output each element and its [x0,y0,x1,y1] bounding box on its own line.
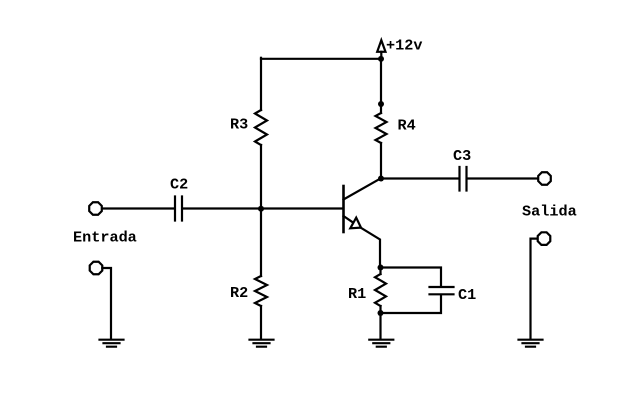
wire C3 to Salida terminal [468,177,538,179]
svg-text:+12v: +12v [386,37,422,55]
capacitor C2 [175,197,182,221]
node dot R4 top [378,101,384,107]
wire emitter node to R1 [379,268,381,275]
wire R1 bottom to ground [379,306,381,339]
svg-text:R4: R4 [398,117,416,135]
svg-text:Entrada: Entrada [73,229,137,247]
terminal Salida top [538,172,551,185]
wire collector to C3 [381,177,459,179]
node dot top rail [378,56,384,62]
svg-text:R3: R3 [230,116,248,134]
wire top rail [261,58,381,60]
transistor Q1 collector lead [344,179,381,200]
wire R4 to collector node [380,143,382,179]
power symbol +12v triangle [377,40,385,52]
ground under Salida [519,340,543,347]
wire salida ground drop [531,239,538,339]
resistor R2 [255,276,267,306]
transistor Q1 emitter lead [344,216,381,267]
svg-text:C2: C2 [170,176,188,194]
resistor R3 [255,110,267,145]
node dot R1 bottom [378,310,384,316]
wire emitter node to C1 top [381,268,441,287]
wire R4 branch [380,59,382,113]
transistor Q1 base bar [342,186,345,232]
svg-text:C1: C1 [458,286,476,304]
wire stem [380,52,382,59]
wire R3 to base junction to R2 [260,145,262,276]
node dot collector [378,176,384,182]
resistor R1 [375,274,386,306]
svg-text:Salida: Salida [522,203,577,221]
terminal Salida bottom [538,232,551,245]
resistor R4 [376,113,387,143]
node dot emitter [378,265,384,271]
ground under R1 [369,340,393,347]
svg-text:R1: R1 [348,285,366,303]
terminal Entrada top [89,202,102,215]
wire entrada ground drop [102,268,111,339]
wire input to C2 [103,207,174,209]
node dot base junction [258,206,264,212]
ground under Entrada [100,340,124,347]
wire R2 to ground [260,306,262,339]
terminal Entrada bottom [90,262,103,275]
capacitor C1 [430,287,454,294]
svg-text:R2: R2 [230,284,248,302]
wire R3 branch from top rail [260,58,262,110]
transistor Q1 emitter arrow [350,218,361,229]
wire C2 to base [183,207,343,209]
capacitor C3 [460,167,467,191]
wire C1 bottom to R1 bottom [381,295,441,313]
svg-text:C3: C3 [453,147,471,165]
ground under R2 [250,340,274,347]
